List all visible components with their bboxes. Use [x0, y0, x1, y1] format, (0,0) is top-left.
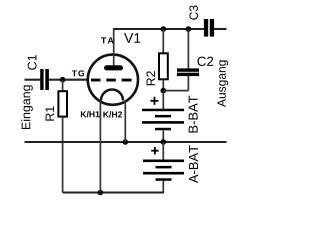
node: K/H2 lead / bottom rail [123, 139, 129, 145]
label R2 [146, 71, 155, 85]
label Ausgang [217, 60, 228, 107]
battery A-BAT [143, 160, 184, 181]
wire: K/H2 cathode/heater lead [124, 101, 126, 142]
label K/H1 [81, 111, 100, 117]
wire: R2 bottom to node B [162, 79, 164, 90]
wire: rail to R2 top [162, 29, 164, 54]
label TA [101, 37, 113, 43]
node A: C1/R1/grid junction [60, 77, 66, 83]
resistor R1 [58, 91, 67, 116]
tube V1 anode plate [104, 65, 123, 70]
node: K/H1 lead / bottom return wire [98, 190, 104, 196]
wire: C2 bottom lead [187, 76, 189, 91]
tube V1 envelope [88, 55, 138, 105]
wire: A-BAT negative down to bottom return wire [162, 181, 164, 193]
node: B-BAT/A-BAT/bottom rail [161, 139, 167, 145]
wire: node B to B-BAT positive plate [162, 91, 164, 109]
tube V1 filament arc [101, 90, 123, 101]
wire: C1 to grid (node A) [49, 79, 89, 81]
resistor R2 [159, 53, 168, 79]
tube V1 grid (dashed) [91, 79, 132, 82]
capacitor C1 [40, 69, 49, 90]
wire: node B to C2 bottom lead [163, 90, 188, 92]
capacitor C2 [177, 68, 199, 76]
label K/H2 [103, 111, 122, 117]
wire: K/H1 cathode/heater lead [99, 100, 101, 193]
node B: R2/C2/B-BAT junction [161, 88, 167, 94]
label + (B-BAT positive) [151, 97, 159, 105]
wire: bottom return wire (R1/grid return to A-BAT negative) [63, 191, 164, 193]
label C3 [189, 5, 197, 19]
node: top rail / R2 [161, 26, 167, 32]
wire: top rail (anode to C3) [113, 28, 204, 30]
battery B-BAT [142, 109, 184, 131]
wire: node A to R1 top [62, 80, 64, 92]
label V1 [124, 33, 140, 43]
label TG [72, 70, 84, 76]
wire: top rail after C3 to Ausgang top [214, 28, 227, 30]
wire: bottom rail (Eingang bottom to Ausgang bottom) [25, 141, 227, 143]
wire: R1 bottom lead down to bottom return wire [62, 117, 64, 193]
wire: bottom rail to A-BAT positive plate [162, 142, 164, 160]
label B-BAT [189, 96, 198, 133]
capacitor C3 [204, 19, 214, 37]
label A-BAT [189, 145, 198, 183]
label C1 [28, 55, 37, 70]
label + (A-BAT positive) [151, 147, 158, 154]
label C2 [197, 57, 213, 66]
wire: C2 top lead from rail [187, 29, 189, 69]
label Eingang [21, 85, 33, 129]
wire: anode lead up to top rail [113, 29, 115, 66]
node: top rail / C2 [186, 26, 192, 32]
wire: Eingang top terminal to C1 [25, 79, 41, 81]
label R1 [46, 106, 54, 120]
wire: B-BAT negative to bottom rail [162, 130, 164, 142]
